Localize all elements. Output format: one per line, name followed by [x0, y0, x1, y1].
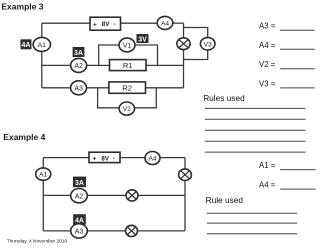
ruled line 3 ex4	[207, 233, 297, 235]
wire left vertical (through A1, A2 tee, down to A3 row)	[41, 23, 43, 88]
ammeter A4 ex4	[145, 152, 160, 165]
ruled line 1 ex4	[207, 212, 297, 214]
ammeter A2 ex4	[71, 189, 88, 203]
value label 4A ex4	[73, 214, 86, 224]
svg-text:V1: V1	[123, 43, 132, 50]
svg-text:Thursday, 4 November 2010: Thursday, 4 November 2010	[7, 238, 68, 244]
ammeter A3 ex3	[71, 81, 87, 95]
svg-text:V3 =: V3 =	[259, 79, 276, 88]
svg-text:8V: 8V	[101, 155, 109, 162]
wire left vertical ex4	[42, 158, 44, 231]
value label 4A ex3	[21, 39, 32, 49]
wire top rail left ex4	[43, 157, 89, 159]
svg-text:3A: 3A	[74, 50, 83, 57]
wire battery to A4	[121, 22, 159, 24]
svg-text:A1: A1	[39, 172, 47, 179]
wire A3 row	[42, 87, 184, 89]
svg-text:3V: 3V	[138, 36, 147, 43]
wire V2 loop	[98, 88, 157, 108]
voltmeter V3 ex3	[200, 38, 215, 50]
lamp top-right ex3	[177, 38, 190, 50]
svg-text:R2: R2	[122, 84, 132, 93]
svg-text:A3: A3	[75, 229, 84, 236]
ammeter A1 ex4	[36, 168, 51, 180]
svg-text:Rules used: Rules used	[203, 93, 245, 103]
svg-text:V2: V2	[123, 106, 131, 113]
wire V3 loop bottom	[184, 44, 208, 60]
resistor R1 ex3	[110, 60, 147, 71]
svg-text:-: -	[113, 21, 115, 28]
battery +8V ex3	[90, 17, 121, 30]
wire right vertical ex4	[184, 158, 186, 231]
lamp A2 row ex4	[126, 190, 138, 201]
value label 3V ex3	[137, 34, 149, 43]
svg-text:A4 =: A4 =	[259, 181, 276, 190]
svg-text:A1 =: A1 =	[259, 161, 276, 170]
value label 3A ex4	[73, 177, 86, 188]
wire V1 loop	[99, 45, 158, 65]
svg-text:A3 =: A3 =	[259, 22, 276, 31]
wire A4 to top-right corner	[171, 22, 184, 24]
svg-text:R1: R1	[123, 61, 133, 70]
svg-text:Example 3: Example 3	[1, 1, 43, 11]
svg-text:A2: A2	[74, 63, 83, 70]
battery +8V ex4	[89, 152, 120, 162]
answer label V2 = ex3	[259, 60, 315, 69]
svg-text:-: -	[113, 155, 115, 162]
ruled line 3 ex3	[205, 129, 306, 131]
ammeter A3 ex4	[71, 224, 88, 238]
svg-text:V2 =: V2 =	[259, 60, 276, 69]
wire right vertical (corner through lamp down to R2 row)	[183, 23, 185, 88]
svg-text:Rule used: Rule used	[206, 195, 244, 205]
ruled line 2 ex4	[207, 222, 297, 224]
wire A3 row ex4	[43, 230, 185, 232]
svg-text:A2: A2	[75, 193, 84, 200]
ruled line 4 ex3	[205, 140, 306, 142]
ruled line 5 ex3	[205, 151, 306, 153]
ammeter A2 ex3	[71, 58, 87, 72]
wire top rail left (A1 top to battery)	[42, 22, 90, 24]
wire A2 row	[42, 64, 184, 66]
answer label V3 = ex3	[259, 79, 315, 88]
svg-text:4A: 4A	[22, 42, 31, 49]
svg-text:Example 4: Example 4	[3, 132, 45, 142]
svg-text:3A: 3A	[75, 180, 84, 187]
svg-text:A4: A4	[161, 21, 169, 28]
answer label A4 = ex3	[259, 41, 315, 50]
wire V3 loop top	[184, 28, 208, 45]
svg-text:A1: A1	[38, 42, 47, 49]
svg-text:+: +	[92, 155, 96, 162]
answer label A3 = ex3	[259, 22, 315, 31]
svg-text:+: +	[93, 21, 97, 28]
ammeter A4 ex3	[157, 16, 173, 29]
answer label A4 = ex4	[259, 181, 316, 190]
ruled line 2 ex3	[205, 118, 306, 120]
value label 3A ex3	[73, 47, 85, 57]
ruled line 1 ex3	[205, 107, 306, 109]
svg-text:V3: V3	[204, 41, 212, 48]
wire battery to A4 ex4	[120, 157, 146, 159]
voltmeter V1 ex3	[119, 38, 135, 52]
resistor R2 ex3	[109, 82, 146, 93]
svg-text:A4 =: A4 =	[259, 41, 276, 50]
svg-text:A4: A4	[148, 156, 156, 163]
lamp A3 row ex4	[126, 225, 138, 236]
lamp right vertical ex4	[179, 169, 192, 181]
answer label A1 = ex4	[259, 161, 316, 170]
wire A4 to corner ex4	[160, 157, 186, 159]
wire A2 row ex4	[43, 194, 185, 196]
ammeter A1 ex3	[33, 37, 50, 51]
voltmeter V2 ex3	[119, 102, 134, 115]
svg-text:A3: A3	[74, 85, 83, 92]
svg-text:8V: 8V	[102, 21, 110, 28]
